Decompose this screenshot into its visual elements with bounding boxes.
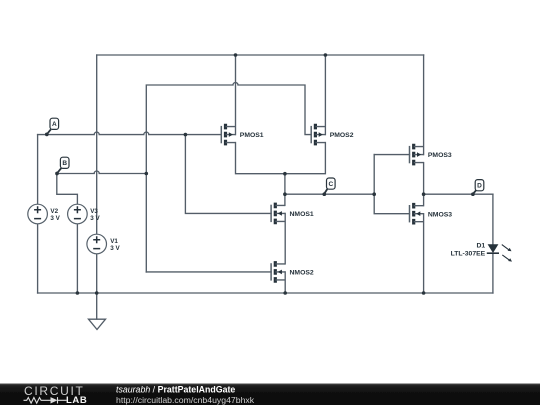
transistor PMOS1 bbox=[221, 124, 264, 146]
wire V2 top stem bbox=[37, 135, 39, 205]
footer bar bbox=[0, 384, 540, 405]
wire ground stem bbox=[96, 293, 98, 319]
svg-text:LAB: LAB bbox=[66, 395, 87, 405]
wire NMOS1 source to NMOS2 drain bbox=[284, 213, 286, 264]
svg-text:3 V: 3 V bbox=[110, 245, 120, 252]
wire VDD left drop to V1 bbox=[96, 55, 98, 234]
wire node C horizontal bbox=[285, 193, 374, 195]
wire PMOS1 drain riser bbox=[235, 55, 237, 135]
wire V3 bottom stem bbox=[76, 224, 78, 293]
svg-text:3 V: 3 V bbox=[90, 215, 100, 222]
node flag A bbox=[45, 118, 59, 136]
wire NMOS3 source drop bbox=[423, 214, 425, 293]
wire NMOS2 gate lead from B riser bbox=[146, 271, 271, 273]
wire node D horizontal bbox=[424, 193, 493, 195]
wire PMOS3 gate lead bbox=[374, 154, 409, 156]
svg-text:B: B bbox=[62, 160, 67, 167]
transistor NMOS1 bbox=[271, 203, 314, 225]
wire PMOS2 drain riser bbox=[324, 55, 326, 135]
svg-text:PMOS2: PMOS2 bbox=[330, 132, 354, 139]
svg-text:NMOS1: NMOS1 bbox=[290, 211, 314, 218]
svg-text:PMOS3: PMOS3 bbox=[428, 152, 452, 159]
wire source tie down to NMOS1 drain bbox=[284, 174, 286, 206]
svg-text:tsaurabh / PrattPatelAndGate: tsaurabh / PrattPatelAndGate bbox=[116, 385, 235, 395]
svg-text:A: A bbox=[52, 121, 57, 128]
wire node B to V3 top bbox=[57, 174, 78, 205]
transistor NMOS2 bbox=[271, 261, 314, 283]
svg-text:3 V: 3 V bbox=[50, 215, 60, 222]
svg-text:D1: D1 bbox=[476, 243, 485, 250]
ground symbol bbox=[89, 319, 106, 329]
wire NMOS2 source drop bbox=[284, 272, 286, 293]
node flag D bbox=[471, 180, 484, 196]
transistor PMOS3 bbox=[410, 144, 452, 166]
svg-text:D: D bbox=[477, 183, 482, 190]
svg-text:C: C bbox=[328, 181, 333, 188]
wire node B riser to PMOS2 gate (hop over PMOS1 riser) bbox=[146, 83, 311, 272]
wire node A horizontal (hops over V1 drop and B riser) bbox=[38, 132, 222, 135]
svg-text:NMOS2: NMOS2 bbox=[290, 270, 314, 277]
voltage source V2 bbox=[28, 204, 61, 224]
CircuitLab logo resistor-diode glyph bbox=[24, 397, 67, 403]
wire PMOS3 gate riser to NMOS3 gate bbox=[374, 155, 409, 214]
wire V1 bottom stem bbox=[96, 254, 98, 293]
LED D1 bbox=[451, 243, 512, 262]
wire D to LED anode bbox=[492, 194, 494, 244]
transistor PMOS2 bbox=[311, 124, 354, 146]
transistor NMOS3 bbox=[410, 203, 453, 225]
voltage source V3 bbox=[68, 204, 101, 224]
wire PMOS3 drain riser bbox=[423, 55, 425, 155]
wire node A branch to NMOS1 gate bbox=[185, 135, 271, 214]
node flag C bbox=[322, 178, 335, 196]
wire V2 bottom stem bbox=[37, 224, 39, 293]
svg-text:NMOS3: NMOS3 bbox=[428, 211, 452, 218]
wire node B horizontal (hop over V1 drop) bbox=[57, 171, 147, 174]
svg-text:PMOS1: PMOS1 bbox=[240, 132, 264, 139]
wire PMOS3 drain to NMOS3 drain bbox=[423, 163, 425, 206]
svg-text:LTL-307EE: LTL-307EE bbox=[451, 251, 486, 258]
wire top VDD rail bbox=[97, 54, 424, 56]
wire PMOS1/PMOS2 source tie bbox=[236, 143, 326, 174]
voltage source V1 bbox=[87, 234, 121, 254]
wire ground rail bbox=[38, 292, 493, 294]
node flag B bbox=[55, 157, 69, 175]
svg-text:http://circuitlab.com/cnb4uyg4: http://circuitlab.com/cnb4uyg47bhxk bbox=[116, 395, 255, 405]
wire LED cathode to ground rail bbox=[492, 253, 494, 293]
